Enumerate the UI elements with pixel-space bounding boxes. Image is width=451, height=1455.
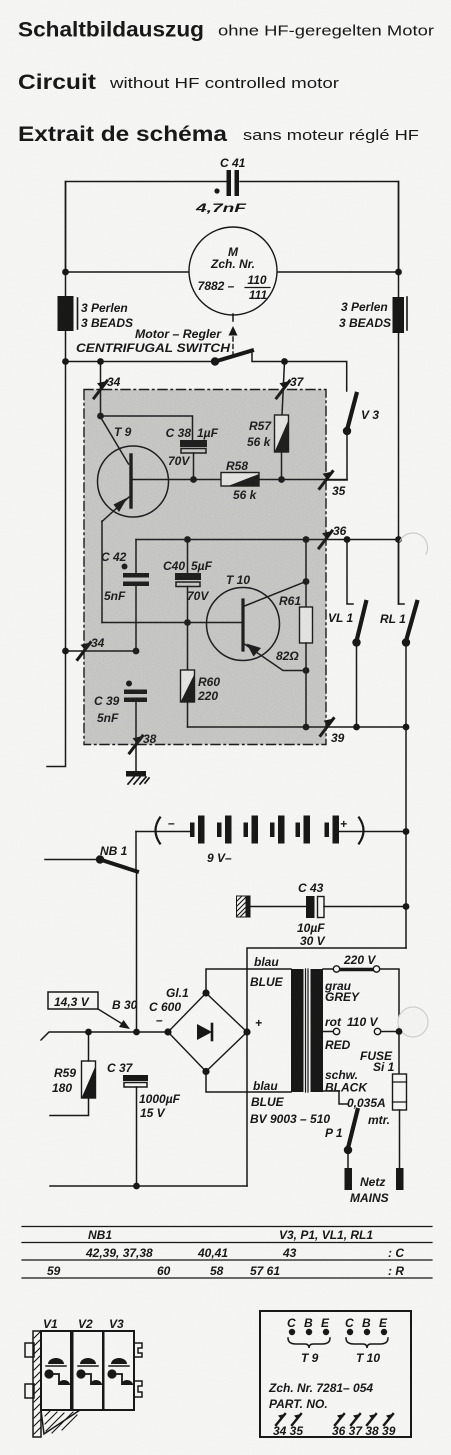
- resistor R58: [133, 459, 348, 502]
- table rules: [22, 1227, 432, 1279]
- mounting bracket hatched: [33, 1331, 41, 1437]
- capacitor C38: [166, 426, 219, 483]
- transformer BV9003-510: [206, 955, 330, 1126]
- measuring point 14,3V: [48, 992, 130, 1029]
- capacitor C43: [237, 881, 410, 948]
- 220V tap: [323, 953, 399, 1074]
- centrifugal switch blade: [215, 351, 252, 362]
- resistor R60: [181, 670, 221, 727]
- switch RL1: [380, 536, 417, 730]
- capacitor C37: [107, 1061, 181, 1189]
- capacitor C39: [94, 681, 147, 772]
- motor M circle: [189, 227, 277, 315]
- wire: T9 emitter drop: [101, 521, 103, 623]
- wire: upper node-36 rail: [136, 539, 399, 541]
- ferrite bead right (3 beads): [339, 297, 407, 333]
- node 36: [319, 524, 347, 548]
- wire: centrifugal switch rail: [66, 361, 216, 363]
- junction dot node34 branch: [97, 358, 104, 365]
- ground at node 38: [126, 771, 149, 784]
- wire: motor feed right: [276, 271, 399, 273]
- T9 collector node wire: [101, 416, 193, 440]
- junction left motor: [62, 269, 69, 276]
- pinout box: [260, 1311, 411, 1438]
- schw/black tap with P1: [323, 1068, 368, 1190]
- resistor R61: [276, 536, 313, 727]
- left nuts: [25, 1343, 34, 1357]
- wire: motor feed left: [66, 271, 192, 273]
- punch hole artifact upper: [400, 533, 428, 554]
- wire: left frame lower + stub: [47, 651, 66, 767]
- node flags: [276, 1414, 393, 1425]
- punch hole artifact lower: [398, 1007, 428, 1037]
- battery NB1 rail: [45, 844, 137, 872]
- 110V tap: [323, 1015, 402, 1052]
- wire to V3: [285, 362, 347, 392]
- dash-dot border of control-region box: [84, 390, 326, 745]
- node 37: [277, 375, 305, 398]
- bottom rail: [50, 1185, 247, 1187]
- motor shaft link (dashed) with arrow: [229, 314, 238, 354]
- wire: right rail to battery: [405, 727, 407, 948]
- resistor R59: [50, 1032, 96, 1116]
- fuse Si1: [347, 1049, 407, 1190]
- junction right motor: [395, 269, 402, 276]
- bottom hatched shelf: [41, 1410, 80, 1434]
- power frame top: [247, 948, 406, 1186]
- node 34 (top): [94, 375, 121, 398]
- capacitor C40: [163, 536, 213, 670]
- right tabs: [134, 1343, 142, 1357]
- wire: node34 vertical into box: [100, 362, 102, 417]
- wire NB1 to rectifier: [136, 872, 138, 1032]
- node 39: [321, 719, 345, 746]
- wire: left frame vertical: [65, 182, 67, 652]
- ferrite bead left (3 beads): [58, 296, 134, 331]
- shaded control-region box (gray fill): [84, 390, 326, 745]
- transistor T10: [102, 573, 306, 671]
- capacitor C42: [101, 540, 149, 652]
- node 35: [320, 472, 346, 499]
- switch V3: [326, 394, 379, 480]
- wire: bottom rail of box (to 39): [188, 726, 407, 728]
- node 38: [130, 732, 157, 753]
- resistor R57: [247, 415, 289, 480]
- wire: top frame left segment: [66, 182, 227, 273]
- battery 9V: [136, 816, 409, 873]
- node34 rail (lower): [62, 636, 139, 660]
- switch module V1: [41, 1331, 71, 1410]
- minus rail: [41, 1032, 168, 1040]
- wire: top frame right segment: [240, 182, 399, 273]
- junction dot: [62, 358, 69, 365]
- switch module V3: [104, 1331, 135, 1410]
- switch module V2: [73, 1331, 104, 1410]
- wire node37 drop: [282, 362, 285, 416]
- transistor T9: [98, 417, 169, 522]
- capacitor C41: [194, 156, 247, 215]
- switch VL1: [328, 536, 366, 730]
- wire: right frame vertical upper: [398, 182, 400, 605]
- rectifier Gl.1 bridge: [112, 986, 262, 1075]
